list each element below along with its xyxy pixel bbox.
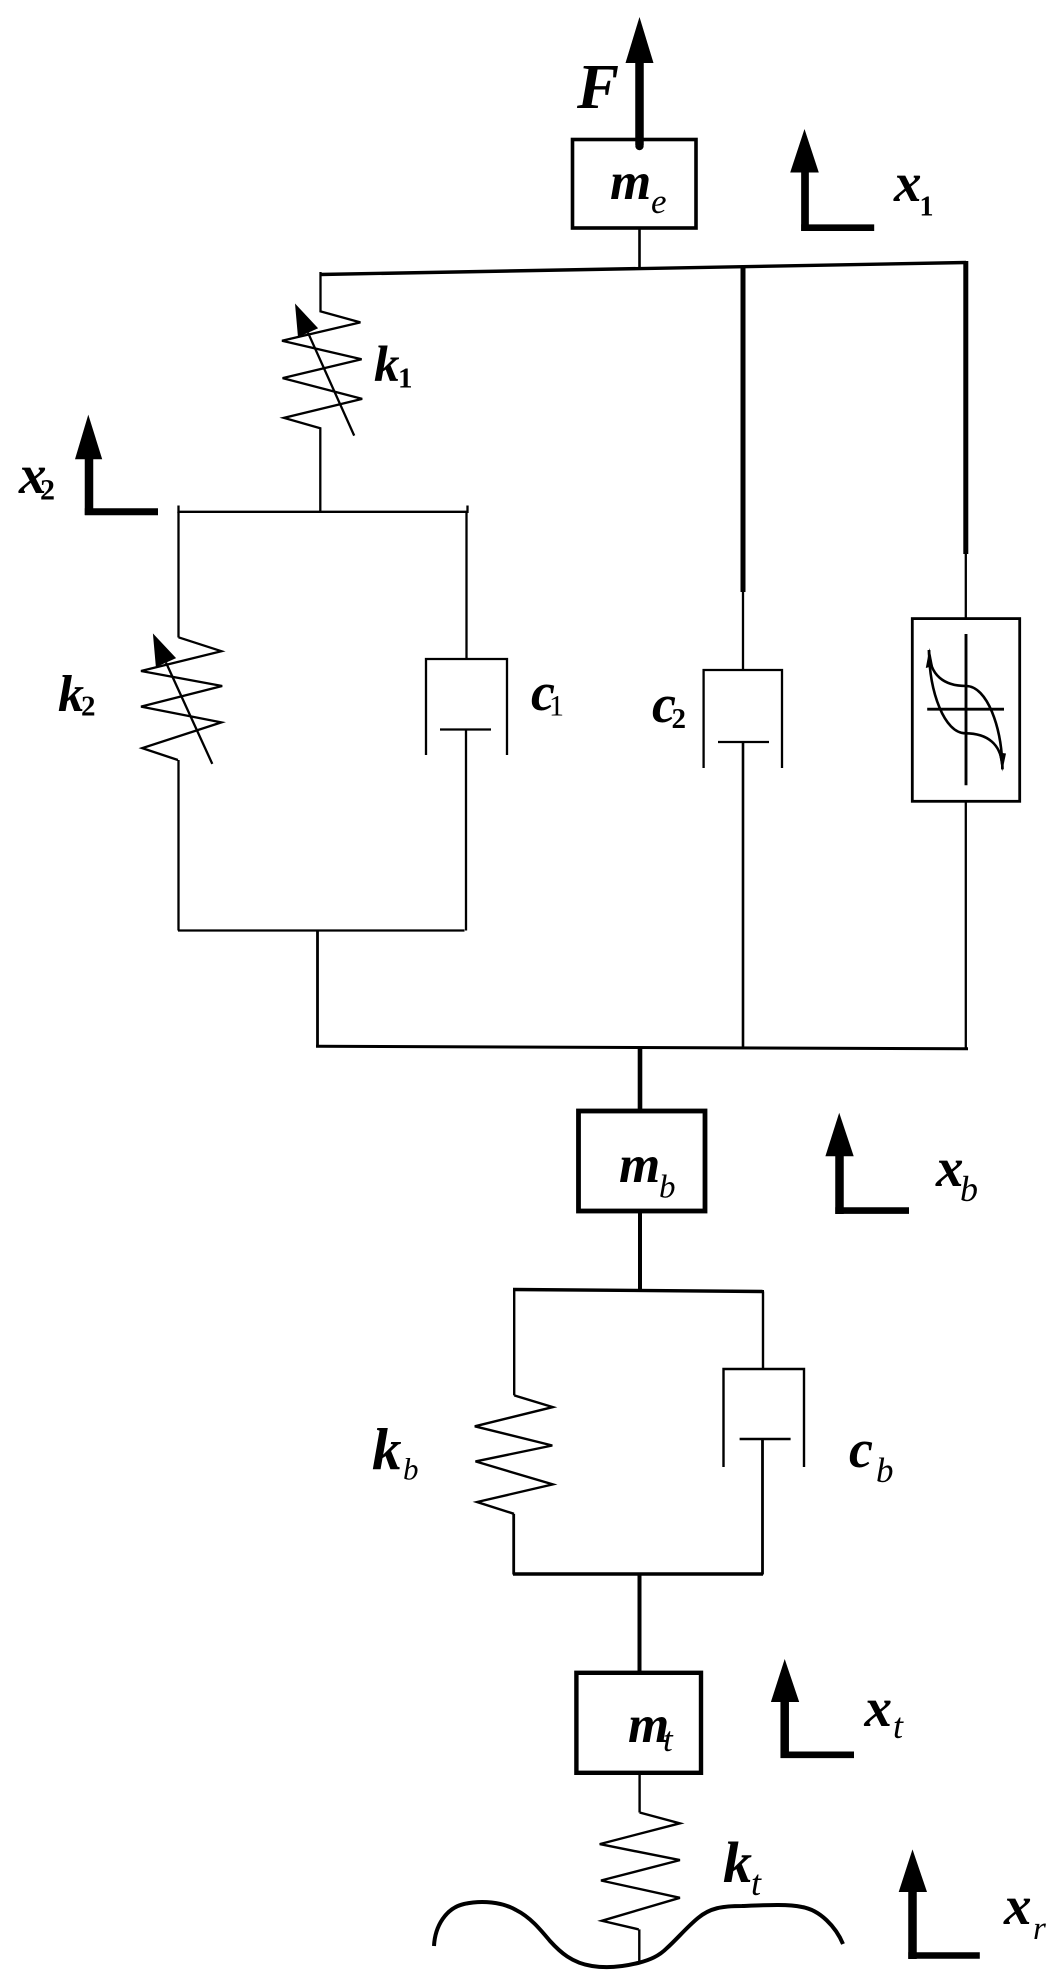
hysteresis vertical axis <box>965 634 968 785</box>
label x1 <box>893 152 934 223</box>
wire: top rail (slanted) <box>320 263 966 275</box>
hysteresis horizontal axis <box>927 708 1004 711</box>
x2 reference arrow <box>75 415 158 515</box>
svg-text:x: x <box>864 1677 893 1738</box>
svg-text:b: b <box>876 1451 894 1490</box>
svg-text:e: e <box>651 182 667 221</box>
svg-text:m: m <box>610 153 651 211</box>
hysteresis loop upper curve <box>929 650 1002 769</box>
wire: kb branch vertical <box>513 1290 515 1395</box>
hysteresis loop arrow tips <box>926 648 1006 772</box>
label x_b <box>935 1137 978 1209</box>
svg-text:t: t <box>751 1863 762 1903</box>
force arrow F <box>626 17 654 150</box>
kb-cb top bracket <box>513 1290 764 1292</box>
svg-text:2: 2 <box>81 691 96 723</box>
damper c2 piston <box>718 742 769 1048</box>
kb-cb bottom bracket <box>513 1572 763 1575</box>
svg-text:2: 2 <box>672 703 687 735</box>
mass m_t <box>576 1673 701 1773</box>
svg-text:c: c <box>849 1419 873 1479</box>
x1 reference arrow <box>790 129 874 231</box>
wire: hysteresis branch rod (thin) <box>965 554 967 619</box>
spring k2 (variable) <box>141 637 222 760</box>
label c_b <box>849 1419 894 1490</box>
label m_b <box>619 1136 676 1206</box>
wire: rod m_t to spring kt <box>638 1773 640 1813</box>
svg-text:1: 1 <box>549 690 564 723</box>
mass m_b <box>579 1111 706 1211</box>
wire: rod from m_e down to top rail <box>638 228 641 270</box>
svg-text:1: 1 <box>398 363 413 395</box>
node x2 frame: left corner tick <box>177 506 179 514</box>
x_t reference arrow <box>771 1659 854 1758</box>
wire: c2 rod (thin) <box>742 592 744 670</box>
label k2 <box>58 666 96 723</box>
k2 variable arrow <box>153 633 212 764</box>
wire: spring kt lower stub <box>638 1929 640 1962</box>
svg-text:t: t <box>663 1720 674 1759</box>
wire: left vertical to spring k2 <box>177 512 179 638</box>
damper c1 piston <box>440 730 491 931</box>
svg-text:k: k <box>372 1416 402 1482</box>
x_b reference arrow <box>825 1113 909 1214</box>
label k_t <box>723 1830 762 1903</box>
svg-text:k: k <box>723 1830 752 1895</box>
spring k1 (variable) <box>282 272 362 512</box>
wire: stub from frame bottom to lower rail <box>316 931 319 1048</box>
wire: below spring kb <box>512 1514 515 1575</box>
wire: cb branch vertical <box>762 1292 764 1370</box>
svg-text:k: k <box>374 337 400 393</box>
wire: from hysteresis box to lower rail <box>965 801 967 1049</box>
wire: hysteresis branch rod from rail corner (thick) <box>963 261 968 554</box>
svg-text:F: F <box>576 52 619 122</box>
wire: c1 rod from frame top <box>465 512 467 659</box>
svg-text:x: x <box>893 152 922 213</box>
wire: lower rail <box>316 1046 968 1049</box>
svg-text:t: t <box>893 1706 904 1746</box>
wire: rod bracket to m_t <box>638 1574 642 1673</box>
spring kb <box>475 1395 553 1513</box>
label k1 <box>374 337 413 395</box>
wire: rod m_b to bracket <box>638 1211 642 1291</box>
x_r reference arrow <box>899 1849 980 1959</box>
hysteresis loop lower curve <box>929 650 1002 769</box>
svg-text:b: b <box>403 1452 419 1487</box>
label c2 <box>652 674 686 735</box>
svg-text:1: 1 <box>920 192 934 223</box>
damper cb cylinder <box>724 1369 805 1467</box>
mass m_e <box>573 140 697 229</box>
label m_e <box>610 153 667 221</box>
svg-text:r: r <box>1033 1911 1046 1947</box>
damper c2 cylinder <box>704 670 782 768</box>
label x_t <box>864 1677 905 1746</box>
svg-text:b: b <box>960 1169 978 1209</box>
node x2 frame: right corner tick <box>466 506 468 514</box>
label x_r <box>1003 1875 1046 1947</box>
wire: rod lower rail to m_b <box>638 1048 643 1111</box>
road profile <box>434 1902 843 1967</box>
node x2 frame: top bar <box>178 511 468 513</box>
svg-text:x: x <box>1003 1875 1032 1936</box>
svg-text:m: m <box>619 1136 660 1194</box>
label c1 <box>531 662 564 723</box>
wire: c2 rod from top rail (thick) <box>741 266 746 593</box>
hysteresis element box <box>912 619 1019 802</box>
node x2 frame: bottom bar <box>178 929 465 931</box>
label x2 <box>18 444 55 507</box>
label m_t <box>628 1696 674 1759</box>
wire: below spring k2 down to bottom bar <box>177 760 179 931</box>
damper cb piston <box>740 1439 791 1575</box>
svg-text:2: 2 <box>40 474 55 507</box>
label k_b <box>372 1416 419 1487</box>
spring kt <box>600 1813 680 1930</box>
svg-text:b: b <box>659 1170 676 1206</box>
k1 variable arrow <box>295 304 354 436</box>
damper c1 cylinder <box>426 659 507 755</box>
